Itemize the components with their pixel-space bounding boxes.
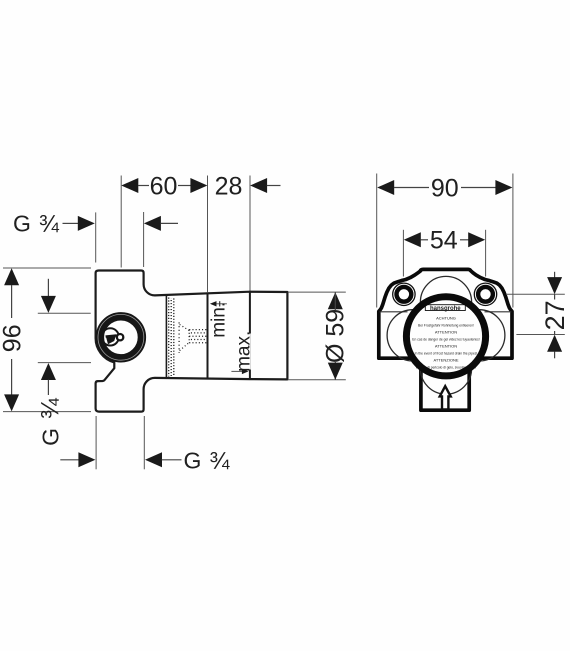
central circle thick ring [406,297,485,376]
min arrow [210,301,227,306]
dimension 28: extension line above max-line x=250 [249,176,251,292]
warning text block [412,316,480,370]
label G 3/4 bottom [184,447,231,474]
svg-text:In the event of frost hazard d: In the event of frost hazard drain the p… [415,352,478,356]
svg-text:min.: min. [208,302,229,338]
unlabeled port leader: lower (up arrow to y=362.5) [38,363,91,395]
dimension 90: extension lines [377,174,513,308]
min plaster line [207,292,209,379]
dimension 28 text and outside arrow [215,172,281,200]
right port [474,283,496,305]
svg-text:ATTENZIONE: ATTENZIONE [433,358,458,363]
svg-text:90: 90 [431,174,459,202]
handle detail: lever circle [102,328,124,345]
dimension 27: extension lines [506,294,565,334]
dimension 96: top extension line [3,267,91,269]
dimension 90 line, arrows, text [377,174,512,202]
max plaster line [249,292,251,379]
svg-text:28: 28 [215,172,243,200]
dimension 54 line, arrows, text [404,227,485,255]
svg-text:54: 54 [430,227,458,255]
unlabeled port leader: upper (down arrow to y=313) [38,279,91,314]
dotted thread band [169,298,174,377]
cartridge circle ring [98,314,144,360]
label G 3/4 rotated (lower-left) [37,397,65,446]
dimension 54: extension lines [403,230,485,277]
dotted spindle funnel [179,322,207,352]
svg-text:27: 27 [540,300,570,330]
dimension D59: extension lines [288,292,346,380]
dimension 27 line, arrows, text [540,272,570,359]
dimension 60: extension line x=143.5 (thread end) [143,212,145,267]
svg-text:ATTENTION: ATTENTION [435,330,457,335]
dimension 60 line and arrows [121,172,207,200]
inner vertical line (cartridge flange) x=166.4 [165,295,167,378]
dimension 60/28: extension line above min-line x=207 [207,176,209,293]
max text (with white gap on max line) [234,331,255,372]
svg-text:hansgrohe: hansgrohe [430,306,461,312]
bottom G 3/4 arrows [60,452,181,467]
dimension D59 line, arrows, text [321,292,349,379]
svg-text:ACHTUNG: ACHTUNG [436,316,456,321]
bottom G 3/4: extension line x=144.3 [143,416,145,469]
body outline (front view) [379,269,512,410]
leader arrow to body left edge (G 3/4 top) [63,212,96,262]
label G 3/4 top-left [13,211,60,238]
dimension 60: extension line at port axis x=121 [120,176,122,268]
opposing arrow at x=143.5 (G 3/4 top) [144,216,178,231]
svg-text:Bei Frostgefahr Rohrleitung en: Bei Frostgefahr Rohrleitung entleeren! [418,324,474,328]
flow direction arrow (hollow, in stub) [440,386,451,409]
body outline (side view) [96,271,288,412]
central circle white fill [403,294,488,379]
hansgrohe label box [425,305,465,312]
svg-text:96: 96 [0,324,26,352]
svg-text:60: 60 [150,172,178,200]
svg-text:max.: max. [234,331,255,372]
svg-text:En cas de danger de gel videz: En cas de danger de gel videz les tuyaut… [412,338,480,342]
left port [393,283,415,305]
svg-text:Ø 59: Ø 59 [321,309,349,363]
inner housing edge (thin) right [485,311,512,313]
lobe circles (clover) [387,276,505,394]
min text [208,302,229,338]
dimension 96 line, arrows, text [0,268,26,411]
svg-text:ATTENTION: ATTENTION [435,344,457,349]
dimension 96: bottom extension line [3,411,91,413]
bottom G 3/4: extension line from body left edge [95,416,97,469]
max arrow [231,369,248,374]
inner housing edge (thin) left [380,311,408,313]
